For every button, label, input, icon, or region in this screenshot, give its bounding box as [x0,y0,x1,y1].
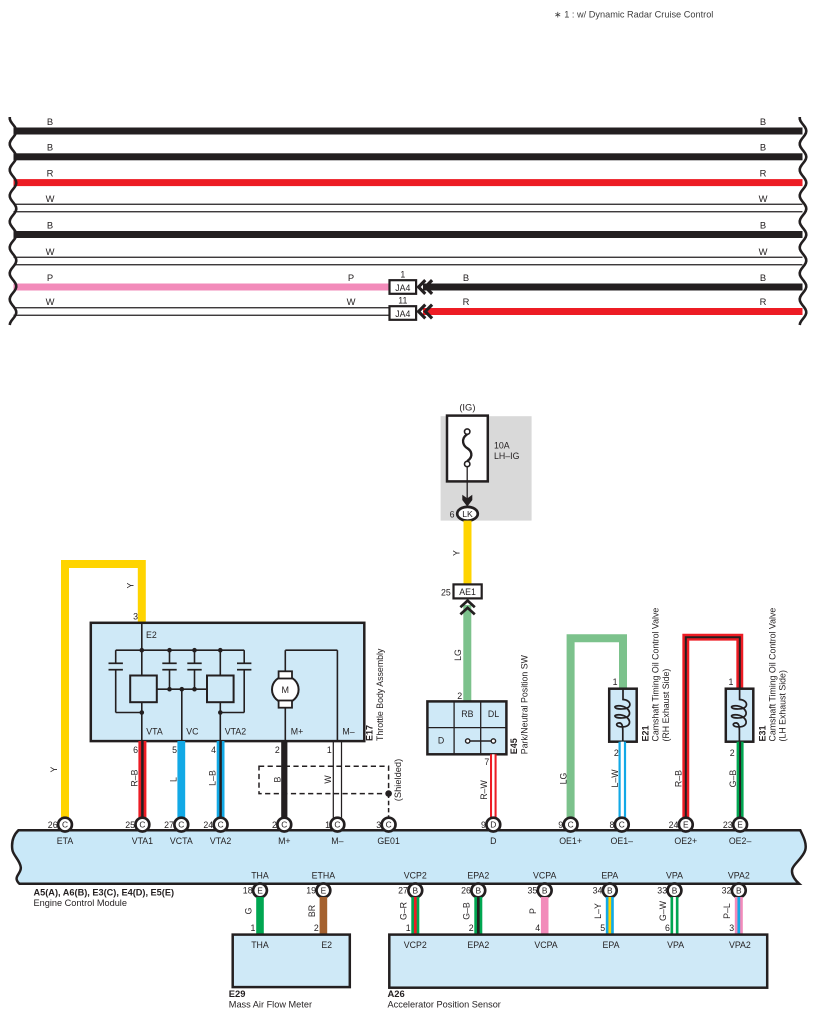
ECM pin 8 OE1- [609,818,633,846]
svg-text:C: C [568,820,574,830]
svg-text:5: 5 [600,923,605,933]
svg-text:Engine Control Module: Engine Control Module [34,898,127,908]
svg-text:GE01: GE01 [377,836,400,846]
svg-text:Camshaft Timing Oil Control Va: Camshaft Timing Oil Control Valve [767,608,777,742]
svg-text:E: E [321,885,327,895]
svg-text:R: R [47,167,54,178]
wire Y (ETA to throttle pin 3) [49,564,142,818]
wire P-L (ECM to sensor pin 3) [722,897,743,935]
ECM pin 19 ETHA [306,870,335,897]
svg-text:B: B [760,272,766,283]
svg-text:G: G [243,907,253,914]
svg-text:2: 2 [272,820,277,830]
svg-text:ETHA: ETHA [312,870,336,880]
svg-text:1: 1 [728,677,733,687]
svg-text:VTA1: VTA1 [132,836,153,846]
svg-text:VC: VC [186,726,199,736]
svg-text:L–Y: L–Y [593,903,603,919]
wire L-W (E21 pin 2 to OE1-) [610,742,626,818]
wire P (ECM to sensor pin 4) [528,897,548,935]
svg-text:OE2–: OE2– [729,836,752,846]
svg-text:LK: LK [462,509,473,519]
svg-text:M–: M– [331,836,343,846]
arrow up from AE1 [460,601,474,615]
svg-text:24: 24 [203,820,213,830]
arrow down to LK [462,495,472,507]
svg-text:27: 27 [398,886,408,896]
svg-text:G–W: G–W [658,900,668,921]
svg-text:E2: E2 [146,630,157,640]
wire B (pin 2 to M+) [272,741,287,818]
wire W (bus row 6) [14,246,803,265]
ECM pin 2 M+ [272,818,291,846]
ECM pin 25 VTA1 [125,818,153,846]
svg-text:R–B: R–B [129,769,139,786]
wire fuse to LK [466,467,468,500]
motor M (throttle) [272,650,337,741]
wire B (bus row 5) [14,219,803,238]
svg-text:6: 6 [450,509,455,519]
ECM designators text [34,887,175,908]
svg-text:A26: A26 [388,988,405,999]
svg-text:B: B [47,219,53,230]
svg-text:5: 5 [172,745,177,755]
svg-text:E: E [737,820,743,830]
shielded cable boundary [259,759,403,817]
svg-text:B: B [47,142,53,153]
svg-text:11: 11 [398,295,407,305]
note: w/ Dynamic Radar Cruise Control [554,10,713,20]
svg-text:B: B [736,885,742,895]
svg-text:L: L [168,777,178,782]
svg-text:VPA2: VPA2 [728,870,750,880]
svg-text:R: R [760,296,767,307]
svg-text:ETA: ETA [57,836,74,846]
svg-text:P: P [528,908,538,914]
wire G-R (ECM to sensor pin 1) [399,897,420,935]
ECM pin 3 GE01 [376,818,400,846]
svg-text:L–B: L–B [207,770,217,786]
wire LG (AE1 to E45 pin 2) [453,605,471,702]
svg-text:W: W [759,193,768,204]
svg-text:VPA2: VPA2 [729,940,751,950]
arrow into JA4 pin 1 [419,280,433,294]
svg-text:9: 9 [481,820,486,830]
wire R-B (pin 6 to VTA1) [129,741,146,818]
svg-text:VTA2: VTA2 [225,726,246,736]
svg-text:P–L: P–L [722,903,732,919]
svg-text:B: B [47,116,53,127]
sensor block 2 (VTA2) [207,676,234,703]
junction block (gray) [441,416,532,520]
wire VTA vertical [140,624,145,742]
svg-text:32: 32 [722,886,732,896]
wire VC vertical [180,687,185,741]
torn edge left [10,117,17,325]
svg-text:25: 25 [441,587,451,597]
svg-text:Throttle Body Assembly: Throttle Body Assembly [375,648,385,741]
svg-text:(Shielded): (Shielded) [393,759,403,801]
ECM pin 35 VCPA [528,870,557,897]
svg-text:A5(A), A6(B), E3(C), E4(D), E5: A5(A), A6(B), E3(C), E4(D), E5(E) [34,887,175,897]
svg-text:BR: BR [307,905,317,917]
svg-text:B: B [463,272,469,283]
svg-text:EPA: EPA [601,870,618,880]
svg-text:M: M [282,685,290,695]
svg-text:(LH Exhaust Side): (LH Exhaust Side) [777,670,787,741]
svg-text:2: 2 [275,745,280,755]
svg-text:R: R [760,167,767,178]
svg-text:VTA: VTA [146,726,163,736]
svg-text:E21: E21 [641,725,651,741]
svg-text:G–B: G–B [462,902,472,920]
ECM pin 23 OE2- [723,818,752,846]
capacitor 1 (leftmost) [109,650,142,712]
svg-text:VCP2: VCP2 [404,870,427,880]
svg-text:Park/Neutral Position SW: Park/Neutral Position SW [519,654,529,754]
capacitor 2 [162,648,176,692]
svg-text:26: 26 [461,886,471,896]
ECM pin 32 VPA2 [722,870,750,897]
svg-text:23: 23 [723,820,733,830]
svg-text:18: 18 [243,886,253,896]
capacitor 3 [187,648,201,692]
svg-text:6: 6 [665,923,670,933]
svg-text:OE1+: OE1+ [559,836,582,846]
svg-text:(IG): (IG) [459,402,475,413]
svg-text:B: B [542,885,548,895]
svg-text:VTA2: VTA2 [210,836,231,846]
svg-text:Y: Y [451,550,461,556]
svg-text:C: C [281,820,287,830]
svg-text:B: B [413,885,419,895]
svg-text:VCTA: VCTA [170,836,193,846]
svg-text:1: 1 [250,923,255,933]
wire R (bus row 3) [14,167,803,186]
svg-text:M+: M+ [291,726,303,736]
wire R-B (OE2+ to E31 pin 1) [674,637,740,818]
svg-text:G–B: G–B [728,770,738,788]
switch E45 Park/Neutral Position SW [427,654,529,754]
node (IG) [459,402,475,413]
svg-text:EPA2: EPA2 [467,870,489,880]
svg-text:3: 3 [133,611,138,621]
wire mid link [157,688,208,690]
fuse 10A LH-IG [447,416,520,482]
svg-text:E2: E2 [321,940,332,950]
svg-text:B: B [760,219,766,230]
svg-text:JA4: JA4 [395,309,410,319]
svg-text:B: B [272,776,282,782]
svg-text:JA4: JA4 [395,283,410,293]
wire G-W (ECM to sensor pin 6) [658,897,679,935]
svg-text:Y: Y [49,766,59,772]
svg-text:OE2+: OE2+ [674,836,697,846]
wire W (to JA4 pin 11) [14,296,390,315]
ECM pin 26 ETA [48,818,74,846]
wire L-B (pin 4 to VTA2) [207,741,224,818]
svg-text:B: B [476,885,482,895]
svg-text:EPA2: EPA2 [467,940,489,950]
wire L-Y (ECM to sensor pin 5) [593,897,614,935]
svg-text:P: P [47,272,53,283]
svg-text:B: B [760,116,766,127]
svg-text:W: W [323,775,333,784]
svg-text:35: 35 [528,886,538,896]
svg-text:2: 2 [314,923,319,933]
svg-text:3: 3 [729,923,734,933]
svg-text:W: W [759,246,768,257]
svg-text:B: B [607,885,613,895]
svg-text:DL: DL [488,709,499,719]
svg-text:9: 9 [558,820,563,830]
valve E31 Camshaft Timing Oil Control Valve (LH Exhaust Side) [726,608,788,742]
svg-text:Mass Air Flow Meter: Mass Air Flow Meter [229,999,312,1009]
svg-text:2: 2 [614,748,619,758]
wire R-W (E45 pin 7 to ECM D) [479,754,496,818]
svg-text:AE1: AE1 [459,587,476,597]
svg-text:C: C [218,820,224,830]
svg-text:1: 1 [400,269,405,279]
svg-text:E: E [683,820,689,830]
wire BR (ECM to sensor pin 2) [307,897,327,935]
svg-text:∗ 1 : w/ Dynamic Radar Cruise: ∗ 1 : w/ Dynamic Radar Cruise Control [554,10,713,20]
wire LG (OE1+ to E21 pin 1) [558,638,623,818]
connector 6 LK [450,507,478,521]
svg-text:24: 24 [669,820,679,830]
svg-text:7: 7 [484,757,489,767]
throttle pin labels [146,726,354,736]
ECM pin 24 VTA2 [203,818,231,846]
connector JA4 pin 11 [390,295,417,320]
svg-text:W: W [46,296,55,307]
svg-text:THA: THA [251,870,269,880]
sensor E29 Mass Air Flow Meter [229,935,350,1010]
svg-text:VCPA: VCPA [533,870,556,880]
ECM pin 34 EPA [593,870,619,897]
svg-text:33: 33 [657,886,667,896]
svg-text:VPA: VPA [667,940,684,950]
svg-text:(RH Exhaust Side): (RH Exhaust Side) [661,669,671,742]
svg-text:D: D [490,820,496,830]
svg-text:VPA: VPA [666,870,683,880]
svg-text:E: E [257,885,263,895]
svg-text:EPA: EPA [603,940,620,950]
svg-text:2: 2 [457,691,462,701]
svg-text:C: C [62,820,68,830]
wire W (bus row 4) [14,193,803,212]
svg-text:LG: LG [453,649,463,661]
svg-text:1: 1 [327,745,332,755]
capacitor 4 (rightmost) [220,650,251,712]
svg-text:G–R: G–R [399,902,409,920]
svg-text:OE1–: OE1– [611,836,634,846]
wire B (bus row 2) [14,142,803,161]
sensor A26 Accelerator Position Sensor [388,935,768,1010]
throttle body assembly E17 box [91,623,385,741]
svg-text:C: C [334,820,340,830]
svg-text:W: W [46,193,55,204]
svg-text:E31: E31 [757,725,767,741]
ECM pin 27 VCTA [164,818,193,846]
ECM pin 26 EPA2 [461,870,489,897]
svg-text:B: B [760,142,766,153]
ECM pin 33 VPA [657,870,683,897]
svg-text:1: 1 [613,677,618,687]
svg-text:Y: Y [126,582,136,588]
svg-text:C: C [178,820,184,830]
svg-text:E29: E29 [229,988,246,999]
ECM pin 9 D [481,818,500,846]
svg-text:R–W: R–W [479,780,489,800]
svg-text:1: 1 [406,923,411,933]
svg-text:C: C [619,820,625,830]
svg-text:4: 4 [535,923,540,933]
ECM pin 18 THA [243,870,269,897]
svg-text:P: P [348,272,354,283]
wire G-B (ECM to sensor pin 2) [462,897,483,935]
ECM pin 9 OE1+ [558,818,582,846]
ECM pin 24 OE2+ [669,818,698,846]
svg-text:19: 19 [306,886,316,896]
valve E21 Camshaft Timing Oil Control Valve (RH Exhaust Side) [609,608,671,742]
svg-text:R–B: R–B [674,770,684,787]
svg-text:W: W [347,296,356,307]
svg-text:C: C [139,820,145,830]
svg-text:M+: M+ [278,836,290,846]
svg-text:M–: M– [342,726,354,736]
wire G-B (E31 pin 2 to OE2-) [728,742,744,818]
svg-text:10A: 10A [494,441,510,451]
svg-text:RB: RB [461,709,473,719]
svg-text:2: 2 [469,923,474,933]
wire B (from JA4 pin 1) [423,272,803,291]
arrow into JA4 pin 11 [419,305,433,319]
svg-text:LH–IG: LH–IG [494,451,520,461]
svg-text:C: C [386,820,392,830]
svg-text:8: 8 [609,820,614,830]
wire B (bus row 1) [14,116,803,135]
svg-text:27: 27 [164,820,174,830]
ECM A5(A),A6(B),E3(C),E4(D),E5(E) Engine Control Module band [12,830,806,884]
svg-text:2: 2 [730,748,735,758]
svg-text:LG: LG [558,772,568,784]
wire P (to JA4 pin 1) [14,272,390,291]
wire internal bus (throttle) [116,649,245,651]
svg-text:L–W: L–W [610,769,620,788]
svg-text:34: 34 [593,886,603,896]
sensor block 1 (VTA) [130,676,157,703]
svg-text:1: 1 [325,820,330,830]
svg-text:VCP2: VCP2 [404,940,427,950]
connector JA4 pin 1 [390,269,417,294]
svg-text:R: R [463,296,470,307]
svg-text:VCPA: VCPA [534,940,557,950]
wire R (from JA4 pin 11) [423,296,803,315]
svg-text:26: 26 [48,820,58,830]
wire Y (LK to AE1) [451,521,471,585]
wire L (pin 5 to VCTA) [168,741,185,818]
ECM pin 1 M- [325,818,344,846]
svg-text:E45: E45 [509,738,519,754]
svg-text:E17: E17 [364,725,374,741]
svg-text:W: W [46,246,55,257]
wire G (ECM to sensor pin 1) [243,897,263,935]
svg-text:25: 25 [125,820,135,830]
connector 25 AE1 [441,584,482,598]
wire W (pin 1 to M-) [323,741,341,818]
svg-text:THA: THA [251,940,269,950]
svg-text:Camshaft Timing Oil Control Va: Camshaft Timing Oil Control Valve [651,608,661,742]
svg-text:D: D [490,836,496,846]
svg-text:3: 3 [376,820,381,830]
wire VTA2 vertical [218,648,223,741]
svg-text:4: 4 [211,745,216,755]
svg-text:Accelerator Position Sensor: Accelerator Position Sensor [388,999,501,1009]
svg-text:6: 6 [133,745,138,755]
ECM pin 27 VCP2 [398,870,427,897]
torn edge right [800,117,807,325]
svg-text:B: B [672,885,678,895]
svg-text:D: D [438,736,444,746]
